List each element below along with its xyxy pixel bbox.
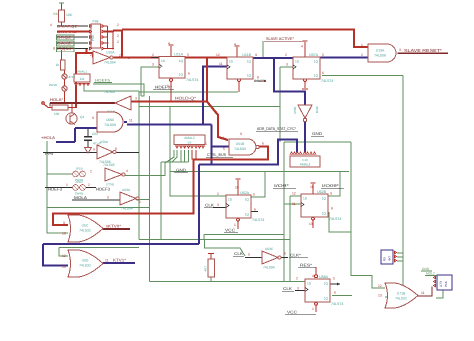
svg-text:9: 9 <box>92 116 94 120</box>
svg-text:1: 1 <box>128 56 130 60</box>
svg-text:HDEF0*: HDEF0* <box>155 85 173 90</box>
svg-text:6: 6 <box>334 291 336 295</box>
svg-text:JP1D: JP1D <box>75 180 83 184</box>
svg-text:1Q: 1Q <box>314 74 319 78</box>
svg-text:5: 5 <box>322 53 324 57</box>
svg-text:1Q: 1Q <box>245 198 250 202</box>
svg-text:11: 11 <box>292 202 296 206</box>
svg-text:74LS04: 74LS04 <box>121 207 133 211</box>
svg-text:5: 5 <box>187 53 189 57</box>
svg-text:R6: R6 <box>53 12 57 16</box>
svg-text:HDEF3: HDEF3 <box>96 187 111 192</box>
svg-text:3: 3 <box>286 63 288 67</box>
svg-text:U11A: U11A <box>174 53 183 57</box>
svg-text:12: 12 <box>62 254 66 258</box>
svg-text:2: 2 <box>217 192 219 196</box>
svg-text:100: 100 <box>54 112 60 116</box>
svg-text:ADR_DATA_STAT_CYC*: ADR_DATA_STAT_CYC* <box>257 126 296 131</box>
svg-text:U10A: U10A <box>106 51 115 55</box>
svg-text:2: 2 <box>117 34 119 38</box>
svg-text:9: 9 <box>63 221 65 225</box>
svg-text:1: 1 <box>312 307 314 311</box>
svg-text:11: 11 <box>105 259 109 263</box>
svg-text:3: 3 <box>297 287 299 291</box>
svg-text:U73: U73 <box>439 281 443 287</box>
svg-text:74LS32: 74LS32 <box>395 297 407 301</box>
svg-text:1Q: 1Q <box>245 213 250 217</box>
svg-text:4K7: 4K7 <box>388 255 392 261</box>
svg-text:13: 13 <box>378 294 382 298</box>
svg-text:11: 11 <box>129 119 133 123</box>
svg-text:I/O09*: I/O09* <box>322 183 340 188</box>
svg-text:6: 6 <box>188 72 190 76</box>
svg-text:5: 5 <box>205 142 207 146</box>
svg-text:2W4B: 2W4B <box>49 83 57 87</box>
svg-text:U090: U090 <box>106 118 114 122</box>
svg-text:2: 2 <box>117 23 119 27</box>
svg-text:9: 9 <box>255 53 257 57</box>
svg-text:1: 1 <box>167 84 169 88</box>
svg-text:P96: P96 <box>91 35 95 41</box>
svg-text:3: 3 <box>217 203 219 207</box>
svg-text:2: 2 <box>152 53 154 57</box>
svg-text:74LS09: 74LS09 <box>104 90 115 94</box>
svg-text:KTV0*: KTV0* <box>108 224 121 229</box>
svg-text:8: 8 <box>53 47 55 51</box>
svg-text:74LS05: 74LS05 <box>103 163 115 167</box>
svg-text:GND: GND <box>422 267 430 271</box>
svg-text:3: 3 <box>152 63 154 67</box>
svg-text:1: 1 <box>139 200 141 204</box>
svg-text:4: 4 <box>222 136 224 140</box>
svg-text:P96: P96 <box>92 20 98 24</box>
svg-text:CLK: CLK <box>205 203 214 208</box>
svg-text:U57A: U57A <box>309 53 319 57</box>
svg-text:4: 4 <box>312 274 314 278</box>
svg-text:CK2: CK2 <box>92 132 98 136</box>
svg-text:MOL2: MOL2 <box>426 272 435 276</box>
svg-text:6: 6 <box>254 208 256 212</box>
svg-text:74LS74: 74LS74 <box>321 79 333 83</box>
svg-text:GND: GND <box>312 131 322 136</box>
svg-text:1: 1 <box>361 43 363 47</box>
svg-text:U71B: U71B <box>397 292 406 296</box>
svg-text:JP1C: JP1C <box>68 75 76 79</box>
svg-text:5: 5 <box>223 147 225 151</box>
svg-text:1Q: 1Q <box>314 60 319 64</box>
svg-text:PAK: PAK <box>444 281 448 287</box>
svg-text:U50E: U50E <box>293 106 297 114</box>
svg-text:74LS04: 74LS04 <box>263 266 275 270</box>
svg-text:HOLA*: HOLA* <box>50 97 63 102</box>
svg-text:U62A: U62A <box>240 191 250 195</box>
svg-text:1Q: 1Q <box>247 74 252 78</box>
svg-text:JP1B: JP1B <box>75 167 82 171</box>
svg-text:2: 2 <box>361 53 363 57</box>
svg-text:9: 9 <box>240 132 242 136</box>
svg-text:2: 2 <box>88 183 90 187</box>
svg-text:2: 2 <box>117 40 119 44</box>
svg-text:74LS74: 74LS74 <box>252 218 264 222</box>
svg-text:SLAVE ACTIVE*: SLAVE ACTIVE* <box>266 36 294 41</box>
svg-text:CLK: CLK <box>234 251 243 256</box>
svg-text:13: 13 <box>309 222 313 226</box>
svg-text:PHI: PHI <box>45 151 53 156</box>
svg-text:74LS32: 74LS32 <box>79 264 91 268</box>
svg-text:DAK2*: DAK2* <box>57 42 74 46</box>
svg-text:1Q: 1Q <box>179 73 184 77</box>
svg-text:MOLA: MOLA <box>74 195 87 200</box>
svg-text:I/O9*: I/O9* <box>274 183 290 188</box>
svg-text:12: 12 <box>292 192 296 196</box>
svg-text:AMAL2: AMAL2 <box>184 136 195 140</box>
svg-text:10: 10 <box>62 232 66 236</box>
svg-text:4: 4 <box>168 42 170 46</box>
svg-text:74LS08: 74LS08 <box>104 123 116 127</box>
svg-text:5: 5 <box>253 193 255 197</box>
svg-text:U5C: U5C <box>82 224 89 228</box>
svg-text:74LS74: 74LS74 <box>329 217 341 221</box>
svg-text:R9: R9 <box>383 257 387 261</box>
svg-text:74LS32: 74LS32 <box>79 229 91 233</box>
svg-text:U51B: U51B <box>236 142 245 146</box>
svg-text:1: 1 <box>234 223 236 227</box>
svg-text:+HOLA: +HOLA <box>41 135 55 140</box>
svg-text:74LS08: 74LS08 <box>374 54 386 58</box>
svg-text:VCC: VCC <box>225 228 235 233</box>
svg-text:HDEF3: HDEF3 <box>48 187 63 192</box>
svg-text:HDEF5: HDEF5 <box>95 79 110 83</box>
svg-text:SLAVE RESET*: SLAVE RESET* <box>404 48 442 53</box>
svg-text:E9: E9 <box>188 141 192 145</box>
svg-text:1: 1 <box>66 183 68 187</box>
svg-text:E10: E10 <box>302 158 308 162</box>
svg-text:111: 111 <box>80 77 85 81</box>
svg-text:11: 11 <box>219 62 223 66</box>
svg-text:5: 5 <box>333 277 335 281</box>
svg-text:1D: 1D <box>303 197 308 201</box>
svg-text:6: 6 <box>322 71 324 75</box>
svg-text:9: 9 <box>93 148 95 152</box>
svg-text:4K7: 4K7 <box>204 266 208 272</box>
svg-text:1: 1 <box>202 119 204 123</box>
svg-text:1D: 1D <box>161 59 166 63</box>
svg-text:45D9: 45D9 <box>315 106 319 114</box>
svg-text:1D: 1D <box>229 60 234 64</box>
svg-text:9: 9 <box>330 192 332 196</box>
svg-text:3: 3 <box>107 196 109 200</box>
svg-text:1Q: 1Q <box>179 59 184 63</box>
svg-text:1Q: 1Q <box>247 60 252 64</box>
svg-text:1Q: 1Q <box>322 212 327 216</box>
svg-text:74LS74: 74LS74 <box>331 302 343 306</box>
svg-text:74LS04: 74LS04 <box>104 61 116 65</box>
svg-text:1D: 1D <box>228 198 233 202</box>
svg-text:AMAL1: AMAL1 <box>77 70 87 74</box>
svg-text:Q1: Q1 <box>80 115 84 119</box>
svg-text:11: 11 <box>421 291 425 295</box>
svg-text:8: 8 <box>106 225 108 229</box>
svg-text:4: 4 <box>126 169 128 173</box>
svg-text:6: 6 <box>262 142 264 146</box>
svg-text:U5D: U5D <box>82 259 89 263</box>
svg-text:U19A: U19A <box>376 49 385 53</box>
svg-text:8: 8 <box>331 207 333 211</box>
svg-text:10K: 10K <box>66 13 73 17</box>
svg-text:4: 4 <box>50 23 52 27</box>
svg-text:74LS74: 74LS74 <box>186 78 198 82</box>
svg-text:2: 2 <box>119 54 121 58</box>
svg-text:GND: GND <box>176 168 186 173</box>
svg-text:IRQ14*: IRQ14* <box>57 47 74 51</box>
svg-text:2: 2 <box>285 53 287 57</box>
svg-text:8: 8 <box>257 76 259 80</box>
svg-text:12: 12 <box>216 53 220 57</box>
svg-text:3: 3 <box>399 48 401 52</box>
svg-text:4: 4 <box>234 43 236 47</box>
svg-text:4: 4 <box>301 45 303 49</box>
svg-text:1Q: 1Q <box>324 297 329 301</box>
svg-text:5: 5 <box>248 253 250 257</box>
svg-text:DRQ2*: DRQ2* <box>57 36 74 40</box>
svg-text:U50A: U50A <box>100 140 109 144</box>
svg-text:U62B: U62B <box>317 190 327 194</box>
svg-text:10: 10 <box>310 185 314 189</box>
svg-text:10: 10 <box>235 186 239 190</box>
svg-text:13: 13 <box>62 265 66 269</box>
svg-text:6: 6 <box>284 252 286 256</box>
svg-text:2: 2 <box>90 53 92 57</box>
svg-text:U11B: U11B <box>242 53 251 57</box>
svg-text:3: 3 <box>135 97 137 101</box>
svg-text:CLK: CLK <box>283 286 292 291</box>
svg-text:1D: 1D <box>307 282 312 286</box>
svg-text:VCC: VCC <box>287 310 297 315</box>
svg-text:1Q: 1Q <box>322 197 327 201</box>
svg-text:DMARQ2*: DMARQ2* <box>57 25 80 29</box>
svg-text:1D: 1D <box>295 60 300 64</box>
svg-text:CLK*: CLK* <box>290 253 302 258</box>
svg-text:1Q: 1Q <box>324 282 329 286</box>
svg-text:2: 2 <box>90 170 92 174</box>
svg-text:74LS74: 74LS74 <box>254 79 266 83</box>
svg-text:U58A: U58A <box>319 275 329 279</box>
svg-text:HOLD-Q*: HOLD-Q* <box>175 96 197 101</box>
svg-text:U63A: U63A <box>122 188 131 192</box>
svg-text:CTRL_BUS: CTRL_BUS <box>207 152 226 157</box>
svg-text:U63C: U63C <box>265 247 274 251</box>
svg-text:74LS00: 74LS00 <box>234 147 246 151</box>
svg-text:KTV1*: KTV1* <box>113 258 126 263</box>
svg-text:AMAL3: AMAL3 <box>300 163 311 167</box>
svg-text:12: 12 <box>378 284 382 288</box>
svg-text:RES*: RES* <box>300 263 313 268</box>
svg-text:8: 8 <box>115 147 117 151</box>
svg-text:DMAK2*: DMAK2* <box>57 30 80 34</box>
svg-text:2: 2 <box>296 277 298 281</box>
